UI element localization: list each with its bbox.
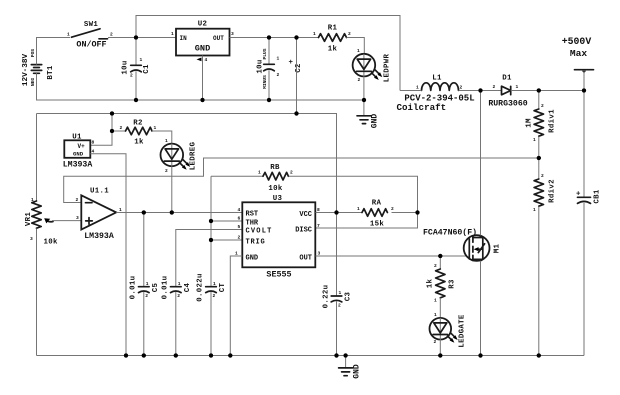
wire U3 GND pin 1 to bottom rail xyxy=(230,256,242,356)
svg-text:1: 1 xyxy=(313,31,316,37)
ground symbol GND (bottom) xyxy=(339,356,362,379)
svg-text:10k: 10k xyxy=(44,239,58,247)
svg-text:2: 2 xyxy=(110,32,113,38)
junction C3 / bottom rail xyxy=(334,353,338,357)
junction C2 / ground rail xyxy=(267,98,271,102)
svg-text:C5: C5 xyxy=(152,283,160,293)
junction regulated rail / R2 branch xyxy=(110,111,114,115)
regulated rail from riser to U1/VR1 (left) and VCC riser (right) xyxy=(37,114,337,213)
svg-text:LEDGATE: LEDGATE xyxy=(458,314,466,347)
svg-text:Coilcraft: Coilcraft xyxy=(397,102,447,113)
svg-text:NEG: NEG xyxy=(30,78,36,87)
wire U3 OUT to MOSFET gate xyxy=(316,255,468,257)
op-amp supply block U1 xyxy=(63,134,95,170)
svg-text:1: 1 xyxy=(533,137,536,143)
svg-text:FCA47N60(F): FCA47N60(F) xyxy=(423,228,477,238)
svg-text:MINUS: MINUS xyxy=(262,75,268,89)
svg-text:Rdiv2: Rdiv2 xyxy=(548,179,556,203)
svg-text:SW1: SW1 xyxy=(84,21,98,29)
svg-text:+: + xyxy=(576,191,581,199)
svg-text:2: 2 xyxy=(391,206,394,212)
svg-text:RURG3060: RURG3060 xyxy=(488,99,527,108)
wire RB pin2 to DISC riser xyxy=(289,176,418,228)
wire Rdiv1 bottom to divider node xyxy=(538,136,540,158)
ground rail (battery NEG, C1, U2 GND, C2, LEDPWR cathode) xyxy=(37,73,365,100)
svg-text:RB: RB xyxy=(270,164,280,172)
junction THR xyxy=(209,219,213,223)
junction C1 / ground rail xyxy=(134,98,138,102)
junction Rdiv2 / bottom rail xyxy=(537,353,541,357)
svg-text:C3: C3 xyxy=(344,292,352,302)
svg-text:2: 2 xyxy=(434,339,437,345)
junction LEDGATE / bottom rail xyxy=(438,353,442,357)
junction U3 GND / bottom rail xyxy=(228,353,232,357)
svg-text:2: 2 xyxy=(145,293,148,299)
svg-text:M1: M1 xyxy=(493,244,501,254)
junction LEDREG / output wire xyxy=(170,210,174,214)
svg-text:GND: GND xyxy=(73,151,84,158)
svg-text:1M: 1M xyxy=(525,118,533,128)
junction switch output / C1 xyxy=(134,35,138,39)
svg-text:Rdiv1: Rdiv1 xyxy=(548,109,556,133)
bottom ground rail xyxy=(37,355,585,357)
svg-text:GND: GND xyxy=(353,364,362,379)
svg-text:4: 4 xyxy=(205,57,208,63)
capacitor CB1 xyxy=(576,91,601,356)
wire LEDGATE cathode to bottom rail xyxy=(439,339,441,355)
svg-text:0.01u: 0.01u xyxy=(129,276,137,300)
svg-text:15k: 15k xyxy=(370,221,384,229)
svg-text:1: 1 xyxy=(258,170,261,176)
svg-text:3: 3 xyxy=(30,236,33,242)
svg-text:IN: IN xyxy=(180,35,188,42)
ground symbol GND (top, below LEDPWR) xyxy=(357,114,380,129)
wire RB pin1 / THR / TRIG / CT riser xyxy=(210,176,212,355)
svg-text:1: 1 xyxy=(178,281,181,287)
svg-text:1: 1 xyxy=(533,207,536,213)
wire D1 cathode to output rail xyxy=(511,90,584,92)
svg-text:LEDREG: LEDREG xyxy=(189,142,197,171)
wire VR1 wiper to comparator plus input xyxy=(52,220,81,222)
junction M1 source / bottom rail xyxy=(478,353,482,357)
LED LEDGATE xyxy=(430,312,467,348)
svg-text:POS: POS xyxy=(30,49,36,58)
svg-text:TRIG: TRIG xyxy=(246,238,266,246)
wire SW1 pin 2 to U2 IN xyxy=(108,37,176,39)
svg-text:1k: 1k xyxy=(134,139,144,147)
svg-text:BT1: BT1 xyxy=(47,65,55,79)
junction C5 / output wire xyxy=(142,210,146,214)
svg-text:2: 2 xyxy=(460,85,463,91)
capacitor C1 xyxy=(121,38,151,101)
wire RA pin 2 to DISC riser xyxy=(392,212,418,214)
junction R3 / gate wire xyxy=(438,254,442,258)
svg-text:10u: 10u xyxy=(256,59,264,73)
wire TRIG to U3 xyxy=(211,239,242,241)
svg-text:U3: U3 xyxy=(273,195,283,203)
junction dots overlay xyxy=(110,35,586,357)
junction U1 GND / bottom rail xyxy=(124,353,128,357)
svg-text:R2: R2 xyxy=(133,120,142,128)
svg-text:C4: C4 xyxy=(184,283,192,293)
power terminal +500V Max xyxy=(562,36,594,91)
junction CT / bottom rail xyxy=(209,353,213,357)
capacitor C2 xyxy=(256,38,303,101)
switch SW1 xyxy=(67,21,113,49)
svg-text:0.22u: 0.22u xyxy=(322,285,330,309)
svg-text:2: 2 xyxy=(213,293,216,299)
svg-text:U1.1: U1.1 xyxy=(90,188,109,196)
svg-text:1k: 1k xyxy=(426,279,434,289)
svg-text:6: 6 xyxy=(238,216,241,222)
capacitor C4 (to U3 CVOLT) xyxy=(161,230,242,356)
junction LEDPWR / ground rail xyxy=(362,98,366,102)
svg-text:1: 1 xyxy=(171,31,174,37)
svg-text:2: 2 xyxy=(290,170,293,176)
svg-text:1: 1 xyxy=(146,281,149,287)
svg-text:SE555: SE555 xyxy=(266,270,291,280)
svg-text:R3: R3 xyxy=(448,279,456,289)
svg-text:2: 2 xyxy=(277,72,280,78)
battery BT1 xyxy=(22,49,55,87)
svg-text:3: 3 xyxy=(231,31,234,37)
junction divider node (feedback) xyxy=(537,156,541,160)
svg-text:1: 1 xyxy=(357,48,360,54)
resistor RB xyxy=(211,164,293,193)
svg-text:PLUS: PLUS xyxy=(262,48,268,59)
junction GND symbol / bottom rail xyxy=(344,353,348,357)
svg-text:U1: U1 xyxy=(72,134,82,142)
svg-text:7: 7 xyxy=(317,223,320,229)
wire R2 pin 1 to LEDREG anode xyxy=(152,131,172,144)
svg-text:1: 1 xyxy=(434,298,437,304)
svg-text:2: 2 xyxy=(238,235,241,241)
svg-text:1: 1 xyxy=(165,138,168,144)
svg-text:L1: L1 xyxy=(432,75,442,83)
svg-text:2: 2 xyxy=(177,293,180,299)
resistor R1 xyxy=(313,25,351,54)
svg-text:4: 4 xyxy=(238,207,241,213)
junction TRIG xyxy=(209,238,213,242)
svg-text:VR1: VR1 xyxy=(25,212,33,226)
wire R3 to LEDGATE xyxy=(439,298,441,318)
svg-text:2: 2 xyxy=(541,103,544,109)
wire R1 pin 2 to LEDPWR anode xyxy=(347,38,365,54)
capacitor CT xyxy=(196,273,227,301)
svg-text:5: 5 xyxy=(238,224,241,230)
junction U2 GND / ground rail xyxy=(200,98,204,102)
svg-text:OUT: OUT xyxy=(213,35,224,42)
junction riser / main rail xyxy=(294,35,298,39)
junction R2 / U1 V+ branch xyxy=(110,129,114,133)
timer U3 SE555 xyxy=(235,195,321,280)
svg-text:1: 1 xyxy=(277,56,280,62)
svg-text:LEDPWR: LEDPWR xyxy=(383,54,391,83)
svg-text:1k: 1k xyxy=(328,46,338,54)
wire L1 pin 2 to switch node xyxy=(459,90,502,92)
svg-text:2: 2 xyxy=(541,173,544,179)
MOSFET M1 FCA47N60(F) xyxy=(423,91,501,261)
svg-text:VCC: VCC xyxy=(299,211,312,219)
svg-text:12V-38V: 12V-38V xyxy=(22,53,30,86)
wire R2 branch down xyxy=(112,114,126,132)
svg-text:8: 8 xyxy=(92,140,95,146)
svg-text:RST: RST xyxy=(246,211,259,219)
svg-text:1: 1 xyxy=(67,32,70,38)
svg-text:10k: 10k xyxy=(268,185,282,193)
svg-text:2: 2 xyxy=(434,263,437,269)
wire comparator output to U3 RST xyxy=(116,212,242,214)
capacitor C3 (VCC bypass) xyxy=(322,213,352,356)
svg-text:1: 1 xyxy=(357,206,360,212)
svg-text:CVOLT: CVOLT xyxy=(246,228,273,236)
op-amp U1.1 xyxy=(76,188,123,241)
svg-text:GND: GND xyxy=(195,44,210,54)
svg-text:RA: RA xyxy=(372,200,382,208)
svg-text:2: 2 xyxy=(165,168,168,174)
wire U2 GND pin 4 down to ground rail xyxy=(202,56,204,101)
junction output rail / +500V / CB1 xyxy=(582,88,586,92)
wire LEDREG cathode to comparator output xyxy=(171,166,173,212)
svg-text:2: 2 xyxy=(76,197,79,203)
svg-text:2: 2 xyxy=(358,77,361,83)
svg-text:1: 1 xyxy=(154,125,157,131)
regulator U2 xyxy=(171,21,234,64)
svg-text:LM393A: LM393A xyxy=(63,161,93,170)
svg-text:GND: GND xyxy=(371,114,380,129)
wire THR to U3 xyxy=(211,220,242,222)
potentiometer VR1 xyxy=(25,197,58,247)
wire VR1 bottom to bottom rail xyxy=(36,229,38,356)
svg-text:1: 1 xyxy=(416,85,419,91)
junction C5 / bottom rail xyxy=(142,353,146,357)
node: riser switch-node to top rail, wire to L1 xyxy=(136,16,400,91)
svg-text:3: 3 xyxy=(76,215,79,221)
svg-text:2: 2 xyxy=(130,73,133,79)
wire LEDPWR cathode down to GND xyxy=(363,76,365,115)
svg-text:ON/OFF: ON/OFF xyxy=(76,39,106,49)
LED LEDPWR xyxy=(353,48,392,83)
resistor R2 xyxy=(120,120,157,147)
svg-text:1: 1 xyxy=(516,84,519,90)
wire left edge regulated rail down to VR1 xyxy=(36,114,38,202)
wire U2 OUT to R1 pin 1 xyxy=(230,37,319,39)
svg-text:D1: D1 xyxy=(502,75,512,83)
svg-text:10u: 10u xyxy=(121,60,129,74)
wire feedback divider to comparator minus input xyxy=(64,158,539,203)
inductor L1 xyxy=(397,75,475,114)
junction switch node (L1/D1/M1 drain) xyxy=(478,88,482,92)
wire Rdiv2 bottom to bottom rail xyxy=(538,206,540,355)
svg-text:2: 2 xyxy=(348,31,351,37)
LED LEDREG xyxy=(161,138,198,174)
svg-text:+500V: +500V xyxy=(562,36,592,47)
svg-text:C1: C1 xyxy=(143,64,151,74)
junction VCC riser / C3 xyxy=(334,210,338,214)
svg-text:1: 1 xyxy=(31,197,34,203)
svg-text:2: 2 xyxy=(338,303,341,309)
resistor RA xyxy=(357,200,394,229)
svg-text:0.022u: 0.022u xyxy=(196,273,204,301)
svg-text:GND: GND xyxy=(246,254,259,262)
svg-text:+: + xyxy=(289,59,294,67)
svg-text:OUT: OUT xyxy=(299,254,312,262)
svg-text:2: 2 xyxy=(120,125,123,131)
svg-text:V+: V+ xyxy=(78,143,86,150)
wire riser from U2 OUT rail down to regulated rail xyxy=(296,38,298,114)
svg-text:2: 2 xyxy=(493,84,496,90)
wire battery POS to SW1 pin 1 xyxy=(37,38,71,65)
svg-text:1: 1 xyxy=(213,281,216,287)
capacitor C5 xyxy=(129,213,160,356)
svg-text:THR: THR xyxy=(246,219,259,227)
svg-text:CT: CT xyxy=(219,283,227,293)
wire L1 pin 1 xyxy=(400,90,422,92)
svg-text:1: 1 xyxy=(339,290,342,296)
wire U1 GND pin 4 to bottom rail xyxy=(90,154,126,356)
svg-text:LM393A: LM393A xyxy=(84,232,114,241)
svg-text:R1: R1 xyxy=(328,25,338,33)
junction RA pin 2 / DISC riser xyxy=(415,210,419,214)
svg-text:1: 1 xyxy=(434,312,437,318)
wire U1 V+ pin 8 xyxy=(90,131,112,145)
svg-text:1: 1 xyxy=(140,57,143,63)
junction D1 / Rdiv1 xyxy=(537,88,541,92)
junction C4 / bottom rail xyxy=(174,353,178,357)
svg-text:Max: Max xyxy=(570,48,588,59)
svg-text:U2: U2 xyxy=(198,21,207,29)
wire M1 source to bottom rail xyxy=(480,261,482,356)
junction regulated rail / riser xyxy=(294,111,298,115)
svg-text:DISC: DISC xyxy=(295,227,312,235)
resistor Rdiv2 xyxy=(533,158,556,213)
svg-text:0.01u: 0.01u xyxy=(161,276,169,300)
svg-text:CB1: CB1 xyxy=(593,189,601,203)
wire U3 VCC to RA pin 1 xyxy=(316,212,363,214)
resistor Rdiv1 xyxy=(525,91,556,144)
resistor R3 xyxy=(426,256,456,304)
junction C2 / main rail xyxy=(267,35,271,39)
diode D1 xyxy=(488,75,527,109)
